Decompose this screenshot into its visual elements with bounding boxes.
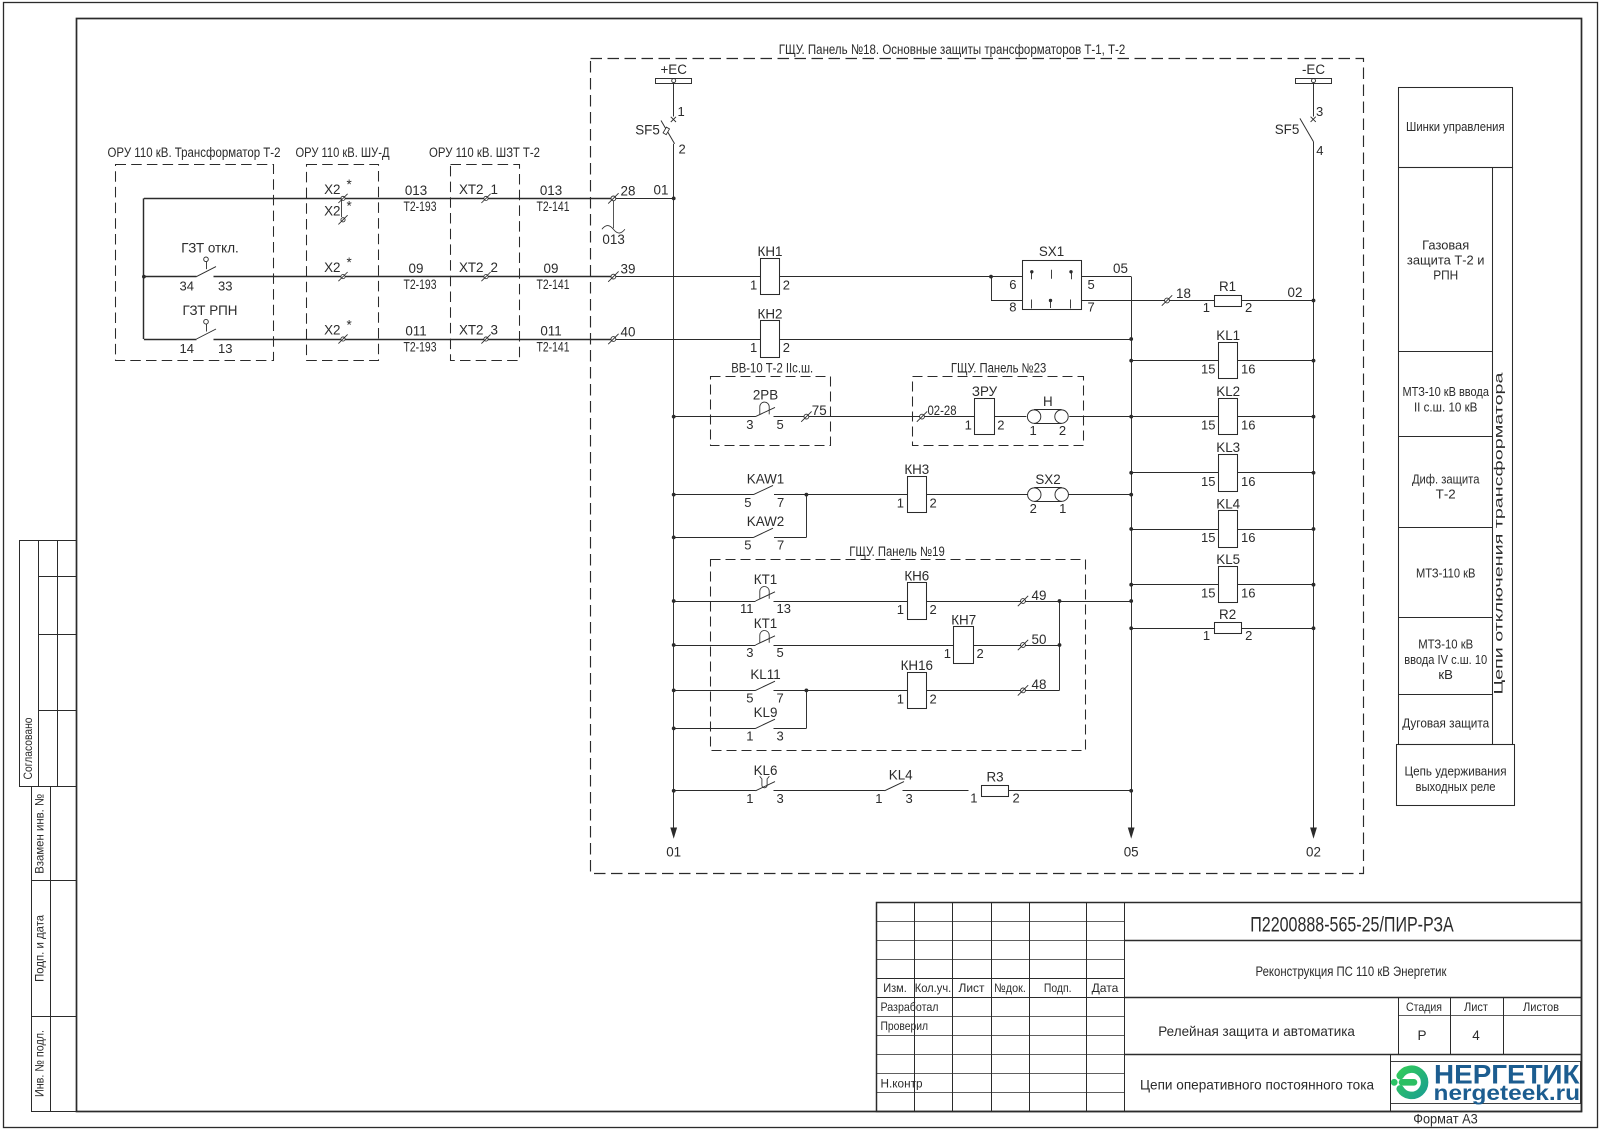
svg-text:09: 09 bbox=[409, 261, 424, 276]
svg-text:2: 2 bbox=[1059, 423, 1066, 438]
svg-text:КН6: КН6 bbox=[904, 568, 929, 583]
svg-text:КТ1: КТ1 bbox=[754, 616, 777, 631]
svg-text:X2: X2 bbox=[324, 182, 340, 197]
svg-text:Стадия: Стадия bbox=[1406, 1000, 1442, 1014]
svg-text:ГЩУ. Панель №23: ГЩУ. Панель №23 bbox=[951, 361, 1047, 376]
svg-text:75: 75 bbox=[812, 403, 827, 418]
svg-text:Инв. № подл.: Инв. № подл. bbox=[33, 1030, 47, 1097]
svg-text:Релейная защита и автоматика: Релейная защита и автоматика bbox=[1158, 1023, 1355, 1039]
svg-text:H: H bbox=[1043, 394, 1053, 409]
svg-text:2: 2 bbox=[783, 278, 790, 293]
svg-text:Т2-141: Т2-141 bbox=[537, 199, 570, 214]
svg-text:ОРУ 110 кВ. ШЗТ Т-2: ОРУ 110 кВ. ШЗТ Т-2 bbox=[429, 145, 540, 160]
svg-text:ХТ2: ХТ2 bbox=[459, 323, 484, 338]
svg-text:ХТ2: ХТ2 bbox=[459, 182, 484, 197]
svg-text:SF5: SF5 bbox=[1275, 122, 1300, 137]
svg-text:16: 16 bbox=[1241, 586, 1255, 601]
svg-text:3: 3 bbox=[906, 791, 913, 806]
svg-text:*: * bbox=[347, 198, 352, 213]
svg-text:Изм.: Изм. bbox=[883, 981, 907, 995]
svg-text:КН2: КН2 bbox=[758, 306, 783, 321]
svg-text:R2: R2 bbox=[1219, 607, 1236, 622]
svg-text:33: 33 bbox=[218, 278, 232, 293]
svg-text:Т2-141: Т2-141 bbox=[537, 277, 570, 292]
svg-text:Лист: Лист bbox=[1464, 1000, 1488, 1014]
svg-text:01: 01 bbox=[666, 845, 681, 860]
svg-text:Р: Р bbox=[1417, 1028, 1426, 1043]
svg-text:3: 3 bbox=[1316, 104, 1323, 119]
svg-text:Т2-193: Т2-193 bbox=[404, 199, 437, 214]
svg-text:Диф. защита: Диф. защита bbox=[1412, 472, 1480, 486]
svg-text:Листов: Листов bbox=[1523, 1000, 1559, 1014]
svg-text:Т2-193: Т2-193 bbox=[404, 277, 437, 292]
svg-text:Взамен инв. №: Взамен инв. № bbox=[33, 794, 47, 874]
svg-text:Подп. и дата: Подп. и дата bbox=[33, 915, 47, 982]
svg-text:SX1: SX1 bbox=[1039, 244, 1064, 259]
svg-text:nergeteek.ru: nergeteek.ru bbox=[1434, 1081, 1581, 1105]
svg-text:39: 39 bbox=[621, 262, 636, 277]
svg-text:*: * bbox=[347, 318, 352, 333]
svg-text:ОРУ 110 кВ. ШУ-Д: ОРУ 110 кВ. ШУ-Д bbox=[296, 145, 390, 160]
svg-text:7: 7 bbox=[1088, 299, 1095, 314]
svg-text:15: 15 bbox=[1201, 362, 1215, 377]
svg-text:X2: X2 bbox=[324, 323, 340, 338]
svg-text:П2200888-565-25/ПИР-РЗА: П2200888-565-25/ПИР-РЗА bbox=[1250, 914, 1454, 937]
svg-text:Кол.уч.: Кол.уч. bbox=[915, 981, 952, 995]
svg-text:Дуговая защита: Дуговая защита bbox=[1402, 717, 1490, 731]
svg-text:МТЗ-10 кВ ввода: МТЗ-10 кВ ввода bbox=[1402, 385, 1489, 399]
svg-text:8: 8 bbox=[1009, 299, 1016, 314]
svg-text:X2: X2 bbox=[324, 203, 340, 218]
svg-text:28: 28 bbox=[621, 183, 636, 198]
svg-text:R3: R3 bbox=[986, 769, 1003, 784]
svg-text:Цепи оперативного постоянного: Цепи оперативного постоянного тока bbox=[1140, 1077, 1374, 1093]
svg-text:КН16: КН16 bbox=[901, 658, 933, 673]
svg-text:1: 1 bbox=[491, 182, 498, 197]
svg-text:KL6: KL6 bbox=[754, 763, 778, 778]
svg-text:2: 2 bbox=[930, 602, 937, 617]
svg-text:KL4: KL4 bbox=[1216, 496, 1240, 511]
svg-text:011: 011 bbox=[540, 323, 561, 338]
svg-text:Т-2: Т-2 bbox=[1436, 487, 1456, 501]
svg-text:48: 48 bbox=[1032, 677, 1047, 692]
svg-text:Шинки управления: Шинки управления bbox=[1406, 120, 1505, 134]
svg-text:49: 49 bbox=[1032, 588, 1047, 603]
svg-text:Т2-193: Т2-193 bbox=[404, 340, 437, 355]
svg-text:2: 2 bbox=[997, 418, 1004, 433]
svg-text:3: 3 bbox=[777, 729, 784, 744]
svg-text:1: 1 bbox=[965, 418, 972, 433]
svg-text:Разработал: Разработал bbox=[881, 1000, 939, 1014]
svg-text:КТ1: КТ1 bbox=[754, 572, 777, 587]
svg-text:ОРУ 110 кВ. Трансформатор Т-2: ОРУ 110 кВ. Трансформатор Т-2 bbox=[108, 145, 281, 160]
svg-text:KAW2: KAW2 bbox=[747, 514, 784, 529]
svg-text:МТЗ-10 кВ: МТЗ-10 кВ bbox=[1418, 638, 1473, 652]
svg-text:7: 7 bbox=[777, 538, 784, 553]
svg-text:1: 1 bbox=[897, 602, 904, 617]
svg-text:1: 1 bbox=[1029, 423, 1036, 438]
svg-text:5: 5 bbox=[777, 417, 784, 432]
svg-text:1: 1 bbox=[750, 278, 757, 293]
svg-text:15: 15 bbox=[1201, 586, 1215, 601]
svg-text:ГЩУ. Панель №18. Основные защи: ГЩУ. Панель №18. Основные защиты трансфо… bbox=[779, 42, 1126, 58]
svg-text:ГЗТ РПН: ГЗТ РПН bbox=[183, 303, 238, 318]
svg-text:Газовая: Газовая bbox=[1422, 239, 1469, 253]
svg-text:13: 13 bbox=[218, 341, 232, 356]
svg-text:KL11: KL11 bbox=[750, 667, 780, 682]
svg-text:2РВ: 2РВ bbox=[753, 388, 778, 403]
svg-text:РПН: РПН bbox=[1433, 269, 1458, 283]
svg-text:-EC: -EC bbox=[1302, 62, 1325, 77]
svg-text:013: 013 bbox=[540, 183, 562, 198]
svg-text:SX2: SX2 bbox=[1035, 472, 1060, 487]
svg-text:КН3: КН3 bbox=[904, 462, 929, 477]
svg-text:KL3: KL3 bbox=[1216, 440, 1240, 455]
svg-text:КН7: КН7 bbox=[951, 612, 976, 627]
svg-text:2: 2 bbox=[977, 646, 984, 661]
svg-text:3: 3 bbox=[746, 417, 753, 432]
svg-text:1: 1 bbox=[1059, 501, 1066, 516]
svg-text:18: 18 bbox=[1176, 286, 1191, 301]
svg-text:1: 1 bbox=[970, 790, 977, 805]
svg-text:ХТ2: ХТ2 bbox=[459, 260, 484, 275]
svg-text:01: 01 bbox=[654, 183, 669, 198]
svg-text:02: 02 bbox=[1306, 845, 1321, 860]
svg-text:11: 11 bbox=[740, 601, 754, 616]
svg-text:011: 011 bbox=[405, 323, 426, 338]
svg-text:KL9: KL9 bbox=[754, 705, 778, 720]
svg-text:KL2: KL2 bbox=[1216, 384, 1240, 399]
svg-text:09: 09 bbox=[544, 261, 559, 276]
svg-text:2: 2 bbox=[1013, 790, 1020, 805]
svg-text:МТЗ-110 кВ: МТЗ-110 кВ bbox=[1416, 567, 1476, 581]
svg-text:Формат А3: Формат А3 bbox=[1413, 1112, 1478, 1127]
svg-text:кВ: кВ bbox=[1438, 668, 1453, 682]
svg-text:1: 1 bbox=[750, 340, 757, 355]
svg-text:15: 15 bbox=[1201, 530, 1215, 545]
svg-text:ВВ-10 Т-2 IIс.ш.: ВВ-10 Т-2 IIс.ш. bbox=[731, 361, 813, 376]
svg-text:№док.: №док. bbox=[994, 981, 1026, 995]
svg-text:15: 15 bbox=[1201, 418, 1215, 433]
svg-text:05: 05 bbox=[1124, 845, 1139, 860]
svg-text:ввода IV с.ш. 10: ввода IV с.ш. 10 bbox=[1404, 653, 1487, 667]
svg-text:Согласовано: Согласовано bbox=[21, 717, 35, 779]
svg-text:2: 2 bbox=[930, 691, 937, 706]
svg-text:1: 1 bbox=[875, 791, 882, 806]
svg-text:2: 2 bbox=[491, 260, 498, 275]
svg-text:Т2-141: Т2-141 bbox=[537, 340, 570, 355]
svg-text:защита Т-2 и: защита Т-2 и bbox=[1407, 254, 1485, 268]
svg-text:1: 1 bbox=[678, 104, 685, 119]
svg-text:1: 1 bbox=[944, 646, 951, 661]
svg-text:7: 7 bbox=[777, 495, 784, 510]
svg-text:5: 5 bbox=[777, 645, 784, 660]
svg-text:15: 15 bbox=[1201, 474, 1215, 489]
svg-text:ГЩУ. Панель №19: ГЩУ. Панель №19 bbox=[849, 544, 945, 559]
svg-text:Проверил: Проверил bbox=[881, 1019, 929, 1033]
svg-text:3: 3 bbox=[746, 645, 753, 660]
svg-text:ГЗТ откл.: ГЗТ откл. bbox=[181, 241, 238, 256]
svg-text:Цепь удерживания: Цепь удерживания bbox=[1405, 765, 1507, 779]
svg-text:13: 13 bbox=[777, 601, 791, 616]
svg-text:2: 2 bbox=[679, 142, 686, 157]
svg-text:KL5: KL5 bbox=[1216, 552, 1240, 567]
svg-text:2: 2 bbox=[1245, 628, 1252, 643]
svg-text:3: 3 bbox=[491, 323, 498, 338]
svg-text:1: 1 bbox=[897, 496, 904, 511]
svg-text:2: 2 bbox=[930, 496, 937, 511]
svg-text:*: * bbox=[347, 177, 352, 192]
svg-text:*: * bbox=[347, 255, 352, 270]
svg-text:3: 3 bbox=[777, 791, 784, 806]
svg-text:16: 16 bbox=[1241, 362, 1255, 377]
svg-text:KAW1: KAW1 bbox=[747, 471, 784, 486]
svg-text:X2: X2 bbox=[324, 260, 340, 275]
svg-text:5: 5 bbox=[746, 691, 753, 706]
svg-text:выходных реле: выходных реле bbox=[1416, 780, 1496, 794]
svg-text:5: 5 bbox=[1088, 277, 1095, 292]
svg-text:1: 1 bbox=[746, 729, 753, 744]
svg-text:5: 5 bbox=[744, 538, 751, 553]
svg-text:R1: R1 bbox=[1219, 279, 1236, 294]
svg-text:34: 34 bbox=[180, 278, 194, 293]
svg-text:40: 40 bbox=[621, 325, 636, 340]
svg-text:1: 1 bbox=[746, 791, 753, 806]
svg-text:2: 2 bbox=[1245, 300, 1252, 315]
svg-text:II с.ш. 10 кВ: II с.ш. 10 кВ bbox=[1414, 400, 1478, 414]
svg-text:1: 1 bbox=[1203, 628, 1210, 643]
svg-text:Цепи отключения трансформатора: Цепи отключения трансформатора bbox=[1492, 372, 1506, 695]
svg-text:КН1: КН1 bbox=[758, 244, 783, 259]
svg-text:6: 6 bbox=[1009, 277, 1016, 292]
svg-text:16: 16 bbox=[1241, 474, 1255, 489]
svg-text:Дата: Дата bbox=[1092, 981, 1119, 995]
svg-text:02-28: 02-28 bbox=[928, 403, 957, 418]
svg-text:16: 16 bbox=[1241, 530, 1255, 545]
svg-text:Н.контр: Н.контр bbox=[881, 1077, 923, 1091]
svg-text:2: 2 bbox=[1030, 501, 1037, 516]
svg-text:Лист: Лист bbox=[959, 981, 985, 995]
svg-text:013: 013 bbox=[405, 183, 427, 198]
svg-text:4: 4 bbox=[1472, 1028, 1480, 1043]
svg-text:16: 16 bbox=[1241, 418, 1255, 433]
svg-text:4: 4 bbox=[1316, 143, 1323, 158]
svg-text:1: 1 bbox=[1203, 300, 1210, 315]
svg-text:Подп.: Подп. bbox=[1044, 981, 1072, 995]
svg-text:ЗРУ: ЗРУ bbox=[972, 384, 998, 399]
svg-text:7: 7 bbox=[777, 691, 784, 706]
svg-text:05: 05 bbox=[1113, 261, 1128, 276]
svg-text:SF5: SF5 bbox=[635, 123, 660, 138]
svg-text:KL4: KL4 bbox=[889, 768, 913, 783]
svg-text:1: 1 bbox=[897, 691, 904, 706]
svg-text:14: 14 bbox=[180, 341, 194, 356]
svg-text:2: 2 bbox=[783, 340, 790, 355]
svg-text:50: 50 bbox=[1032, 632, 1047, 647]
svg-text:Реконструкция ПС 110 кВ Энерге: Реконструкция ПС 110 кВ Энергетик bbox=[1256, 964, 1447, 979]
svg-text:+EC: +EC bbox=[660, 62, 687, 77]
svg-text:KL1: KL1 bbox=[1216, 328, 1240, 343]
svg-text:013: 013 bbox=[602, 232, 624, 247]
svg-text:02: 02 bbox=[1288, 285, 1303, 300]
svg-text:5: 5 bbox=[744, 495, 751, 510]
